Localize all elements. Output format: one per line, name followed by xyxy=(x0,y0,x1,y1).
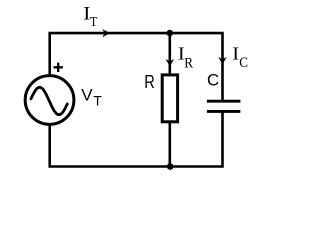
wire: bottom rail from source bottom to capacitor bottom xyxy=(50,112,223,167)
svg-text:C: C xyxy=(239,54,248,70)
svg-text:T: T xyxy=(93,94,102,109)
svg-text:R: R xyxy=(184,55,194,71)
svg-text:R: R xyxy=(144,71,155,92)
capacitor C bottom plate xyxy=(207,110,241,113)
wire: resistor branch lower segment xyxy=(169,123,172,167)
svg-text:C: C xyxy=(207,71,219,90)
svg-text:V: V xyxy=(81,86,93,105)
arrow I_T (points right) xyxy=(102,29,110,37)
wire: top rail from source top corner to capacitor branch corner xyxy=(50,33,223,100)
capacitor C top plate xyxy=(207,100,241,103)
source V_T: sine wave xyxy=(31,87,67,114)
node: top junction dot xyxy=(167,30,174,37)
wire: resistor branch upper segment xyxy=(169,33,172,75)
arrow I_R (points down) xyxy=(166,59,175,66)
polarity plus sign xyxy=(54,63,63,72)
source V_T: AC source circle xyxy=(25,76,74,125)
svg-text:T: T xyxy=(90,13,98,29)
resistor R body xyxy=(162,75,177,122)
arrow I_C (points down) xyxy=(218,57,227,64)
node: bottom junction dot xyxy=(167,163,174,170)
svg-text:I: I xyxy=(232,44,239,64)
